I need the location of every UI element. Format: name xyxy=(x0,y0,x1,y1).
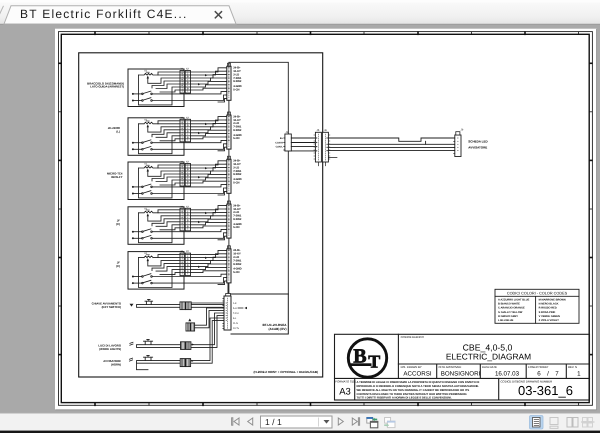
svg-text:A AZZURRO LIGHT BLUE: A AZZURRO LIGHT BLUE xyxy=(498,299,530,302)
svg-text:/: / xyxy=(547,371,549,378)
svg-text:RIPRODURLO O RENDERLO COMUNQUE: RIPRODURLO O RENDERLO COMUNQUE NOTO A TE… xyxy=(357,385,480,388)
relay unit 2 label xyxy=(108,126,121,134)
lights wire pair xyxy=(137,313,225,347)
horn connector pair xyxy=(180,359,190,367)
supply bus wire xyxy=(229,62,288,294)
horn arrow xyxy=(192,360,194,362)
svg-text:S ROSA PINK: S ROSA PINK xyxy=(539,311,556,314)
layout facing button xyxy=(567,418,578,428)
svg-text:L BLU BLUE: L BLU BLUE xyxy=(498,319,514,322)
svg-text:SCHEDA LED: SCHEDA LED xyxy=(468,140,488,144)
svg-text:(HORN): (HORN) xyxy=(111,363,121,367)
svg-text:(H-2002.2 HOIST + OPTIONAL + D: (H-2002.2 HOIST + OPTIONAL + DIAGN./CAB) xyxy=(254,370,318,374)
svg-text:DIS. DRAWN BY: DIS. DRAWN BY xyxy=(401,365,422,369)
svg-text:V VERDE GREEN: V VERDE GREEN xyxy=(539,315,560,318)
svg-text:CODICE ELENCO: CODICE ELENCO xyxy=(401,335,425,339)
strip S arrow xyxy=(244,307,247,309)
disclaimer text xyxy=(357,381,480,400)
wires J4 to J5 xyxy=(291,138,315,151)
relay unit 1 label xyxy=(87,81,124,88)
svg-text:1-K: 1-K xyxy=(233,302,237,305)
aux connector row xyxy=(186,308,224,331)
BT logo xyxy=(348,339,386,377)
key switch connector pair xyxy=(180,302,191,310)
svg-text:ELECTRIC_DIAGRAM: ELECTRIC_DIAGRAM xyxy=(446,352,531,362)
connector J9 xyxy=(454,129,464,157)
connector J5/J6 pair xyxy=(314,129,337,166)
horn not-connected mark xyxy=(129,358,132,361)
tab bar background xyxy=(0,0,600,24)
svg-text:16.07.03: 16.07.03 xyxy=(495,371,520,378)
strip S pin names xyxy=(233,302,240,330)
svg-text:CH'D APPROVED: CH'D APPROVED xyxy=(439,365,462,369)
connector chain wire xyxy=(228,100,230,294)
relay unit 4 xyxy=(128,201,242,244)
active document tab xyxy=(4,6,236,24)
J4 pin labels xyxy=(275,137,283,148)
svg-text:TUTTI I DIRITTI RISERVATI A NO: TUTTI I DIRITTI RISERVATI A NORMA DI LEG… xyxy=(357,397,452,400)
svg-text:CAN-H: CAN-H xyxy=(275,141,283,144)
drawing outer frame xyxy=(59,32,593,406)
connector J4 xyxy=(284,131,292,151)
frame tick marks bottom xyxy=(95,402,579,406)
lights arrow xyxy=(192,343,194,345)
svg-text:(WORK LIGHTS): (WORK LIGHTS) xyxy=(99,347,121,351)
horn row xyxy=(103,359,121,367)
frame tick marks right xyxy=(589,63,593,354)
svg-text:(L): (L) xyxy=(116,130,120,134)
svg-text:A TERMINE DI LEGGE CI RISERVIA: A TERMINE DI LEGGE CI RISERVIAMO LA PROP… xyxy=(357,381,480,384)
drawing inner frame xyxy=(61,34,589,402)
work lights row xyxy=(98,344,121,352)
prev view icon xyxy=(366,417,378,428)
svg-text:CONTENTS DISCLOSED TO THIRD PA: CONTENTS DISCLOSED TO THIRD PARTIES WITH… xyxy=(357,393,468,396)
svg-text:6: 6 xyxy=(537,371,541,378)
tab close button xyxy=(215,11,222,18)
nav prev button xyxy=(248,418,253,425)
svg-text:CODICI COLORI - COLOR CODES: CODICI COLORI - COLOR CODES xyxy=(507,292,568,296)
page number box xyxy=(261,416,333,428)
relay unit 2 xyxy=(128,112,242,155)
lights not-connected mark xyxy=(130,342,133,345)
svg-text:WE RESERVE ALL RIGHTS ON THIS: WE RESERVE ALL RIGHTS ON THIS DRAWING. I… xyxy=(357,389,470,392)
relay unit 3 xyxy=(128,156,242,199)
next view icon (disabled) xyxy=(384,418,395,428)
svg-text:03-361_6: 03-361_6 xyxy=(518,383,573,398)
nav last-page button xyxy=(352,418,359,425)
svg-text:DATA DATE: DATA DATE xyxy=(482,365,497,369)
lights connector pair xyxy=(181,342,191,350)
bottom terminal strip S xyxy=(223,283,231,330)
svg-text:C ARANCIO ORANGE: C ARANCIO ORANGE xyxy=(498,307,525,310)
svg-text:BT Electric Forklift C4E...: BT Electric Forklift C4E... xyxy=(20,7,188,21)
svg-text:1 / 1: 1 / 1 xyxy=(265,417,282,427)
ground symbol xyxy=(130,304,134,307)
svg-text:H GRIGIO GREY: H GRIGIO GREY xyxy=(498,315,518,318)
svg-text:12-Tx: 12-Tx xyxy=(233,327,240,330)
partial tab at far left xyxy=(0,6,4,24)
layout continuous button xyxy=(550,418,558,429)
svg-text:B BIANCO WHITE: B BIANCO WHITE xyxy=(498,303,520,306)
svg-text:T: T xyxy=(368,351,380,371)
svg-text:(ACAB) (EV): (ACAB) (EV) xyxy=(268,327,286,331)
very bottom dark strip xyxy=(0,431,600,433)
frame tick marks left xyxy=(58,63,62,354)
svg-text:M MARRONE BROWN: M MARRONE BROWN xyxy=(539,299,566,302)
layout continuous-facing button xyxy=(581,418,595,428)
svg-text:ACCORSI: ACCORSI xyxy=(403,371,431,378)
color codes table xyxy=(495,289,579,323)
controller box BT-UC xyxy=(231,294,288,334)
relay unit 4 label xyxy=(116,219,120,227)
svg-text:BKW-FY: BKW-FY xyxy=(111,175,122,179)
svg-text:AVVISATORE: AVVISATORE xyxy=(468,146,487,150)
relay unit 5 xyxy=(128,246,242,289)
pdf page xyxy=(55,29,597,410)
bottom toolbar xyxy=(0,413,600,430)
svg-text:1: 1 xyxy=(577,371,581,378)
svg-text:CAN-L: CAN-L xyxy=(276,145,284,148)
svg-text:Z VIOLA VIOLET: Z VIOLA VIOLET xyxy=(539,319,560,322)
svg-text:(E): (E) xyxy=(116,222,120,226)
horn wire pair xyxy=(137,318,225,370)
svg-text:LATO GUIDA-(ARMREST): LATO GUIDA-(ARMREST) xyxy=(90,85,124,89)
push button P2 xyxy=(144,339,153,344)
key switch row xyxy=(92,302,122,310)
svg-text:7-CH: 7-CH xyxy=(233,312,239,315)
svg-text:(E): (E) xyxy=(116,264,120,268)
svg-text:A3: A3 xyxy=(339,387,351,398)
svg-text:R ROSSO RED: R ROSSO RED xyxy=(539,307,557,310)
relay unit 5 label xyxy=(116,261,120,269)
main enclosure box xyxy=(79,53,323,377)
J9 labels xyxy=(468,140,488,150)
svg-text:BONSIGNORI: BONSIGNORI xyxy=(441,371,481,378)
push button P1 xyxy=(145,299,153,304)
svg-text:FOGLIO SHEET: FOGLIO SHEET xyxy=(528,365,549,369)
controller label xyxy=(262,323,287,331)
title block xyxy=(335,334,590,400)
svg-text:FORMATO SIZE: FORMATO SIZE xyxy=(335,379,356,383)
nav first-page button xyxy=(232,418,239,425)
svg-text:G GIALLO YELLOW: G GIALLO YELLOW xyxy=(498,311,523,314)
svg-text:5-H: 5-H xyxy=(233,307,237,310)
push button P3 xyxy=(144,355,153,360)
aux arrow xyxy=(188,319,191,322)
svg-text:(KEY SWITCH): (KEY SWITCH) xyxy=(102,305,121,309)
frame tick marks top xyxy=(95,31,579,35)
relay unit 3 label xyxy=(107,172,123,180)
nav next button xyxy=(338,418,343,425)
wires J6 to J9 xyxy=(328,138,454,151)
svg-text:N NERO BLACK: N NERO BLACK xyxy=(539,303,559,306)
svg-text:11-N: 11-N xyxy=(233,322,238,325)
key switch wire pair xyxy=(137,303,225,307)
layout single-page button (active) xyxy=(530,416,544,430)
relay unit 1 (armrest) xyxy=(128,63,242,106)
svg-text:REV. N: REV. N xyxy=(568,365,577,369)
svg-text:7: 7 xyxy=(555,371,559,378)
